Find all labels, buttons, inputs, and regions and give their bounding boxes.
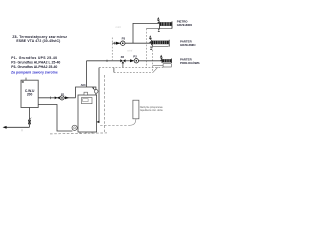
pump P3 [121,41,125,45]
svg-text:P2- Grundfos ALPHA2 L 25-40: P2- Grundfos ALPHA2 L 25-40 [11,61,60,65]
svg-text:mint: mint [127,49,133,53]
cold water arrow [3,126,7,129]
svg-text:zapełnienie inst. dolne: zapełnienie inst. dolne [140,109,164,112]
wire return drop to boiler [98,68,100,122]
check valve after mixing valve [130,59,134,62]
radiator valve podlogowka [160,55,163,61]
svg-text:Z8: Z8 [121,55,125,59]
svg-text:P1- Grundfos UPS 25-40: P1- Grundfos UPS 25-40 [11,56,57,60]
pump P1 [60,96,64,100]
wire podlogowka loop return [153,64,164,66]
union tick on P1 line [50,97,52,100]
radiator valve parter [149,35,152,43]
check valve after P3 [116,42,121,45]
svg-text:Naczynie przeponowe: Naczynie przeponowe [140,106,164,109]
union tick on P3 line [114,42,116,45]
wire cold water line [6,126,30,128]
svg-text:P3- Grundfos ALPHA2 25-40: P3- Grundfos ALPHA2 25-40 [11,65,57,69]
boiler legs [79,132,81,134]
wire expansion vessel dashed connection [100,124,130,126]
svg-text:ESBE VTA 472 (30-45stC): ESBE VTA 472 (30-45stC) [16,39,60,43]
wire P2 supply to podlogowka [126,60,131,62]
svg-text:200: 200 [27,93,33,97]
node P3 branch dashed riser [111,38,113,61]
svg-text:A03: A03 [81,83,86,87]
svg-text:P2: P2 [133,54,137,58]
valve on cold water riser [28,120,30,125]
wire parter return dashed drop [151,47,153,73]
svg-text:Za pompami zawory zwrotne: Za pompami zawory zwrotne [11,70,58,74]
wire coil return tank to burner [38,105,72,132]
return valve pietro [158,29,160,31]
boundary dashed wall vertical [104,75,106,132]
tank C.W.U body [21,80,38,107]
wire boiler top manifold [76,87,96,98]
svg-text:mint: mint [116,25,122,29]
boiler control panel [82,98,93,104]
arrow into boiler return [96,121,99,123]
valve Z8 mixing (3-way) [120,59,125,63]
radiator pietro grzejniki [160,21,173,28]
radiator parter grzejniki [151,40,169,47]
svg-text:PODŁOGÓWKA: PODŁOGÓWKA [180,60,200,65]
check valve after P1 [65,96,69,99]
boiler flue stub [84,92,88,95]
wire podlogowka return riser [113,68,115,73]
boiler burner circle [72,125,77,130]
tick below cold water line [21,129,23,131]
radiator valve pietro [157,17,160,23]
wire podlogowka return dashed [114,71,153,73]
svg-text:P3: P3 [122,37,126,41]
wire supply manifold to mixing valve [87,60,121,62]
valve on P1 line [55,96,60,99]
wire P3 circuit line [112,42,151,44]
wire mixing valve return branch [122,63,124,67]
wire P1 line from tank [38,97,75,99]
pump P2 [134,59,138,63]
radiator parter podlogowka [162,59,172,64]
wire supply riser from boiler [86,61,88,87]
safety group on boiler supply [94,90,98,94]
svg-text:P1: P1 [61,92,65,96]
wire cold water riser to tank [29,108,31,128]
wire return main dashed [99,67,163,69]
wire pietro return [146,28,172,30]
boiler body [78,95,97,132]
svg-text:GRZEJNIKI: GRZEJNIKI [180,43,196,47]
return valve parter [150,47,152,49]
svg-text:GRZEJNIKI: GRZEJNIKI [177,23,193,27]
wire podlogowka return diagonal [153,67,158,72]
wire pietro supply riser [133,23,160,43]
wire pietro return dashed drop [145,29,147,68]
floor loop box [163,64,171,67]
union tick on supply line [106,60,108,62]
expansion vessel [133,100,139,119]
tank top stub [25,78,27,81]
wire parter return [152,46,168,48]
boundary dashed floor under boiler [50,133,107,134]
